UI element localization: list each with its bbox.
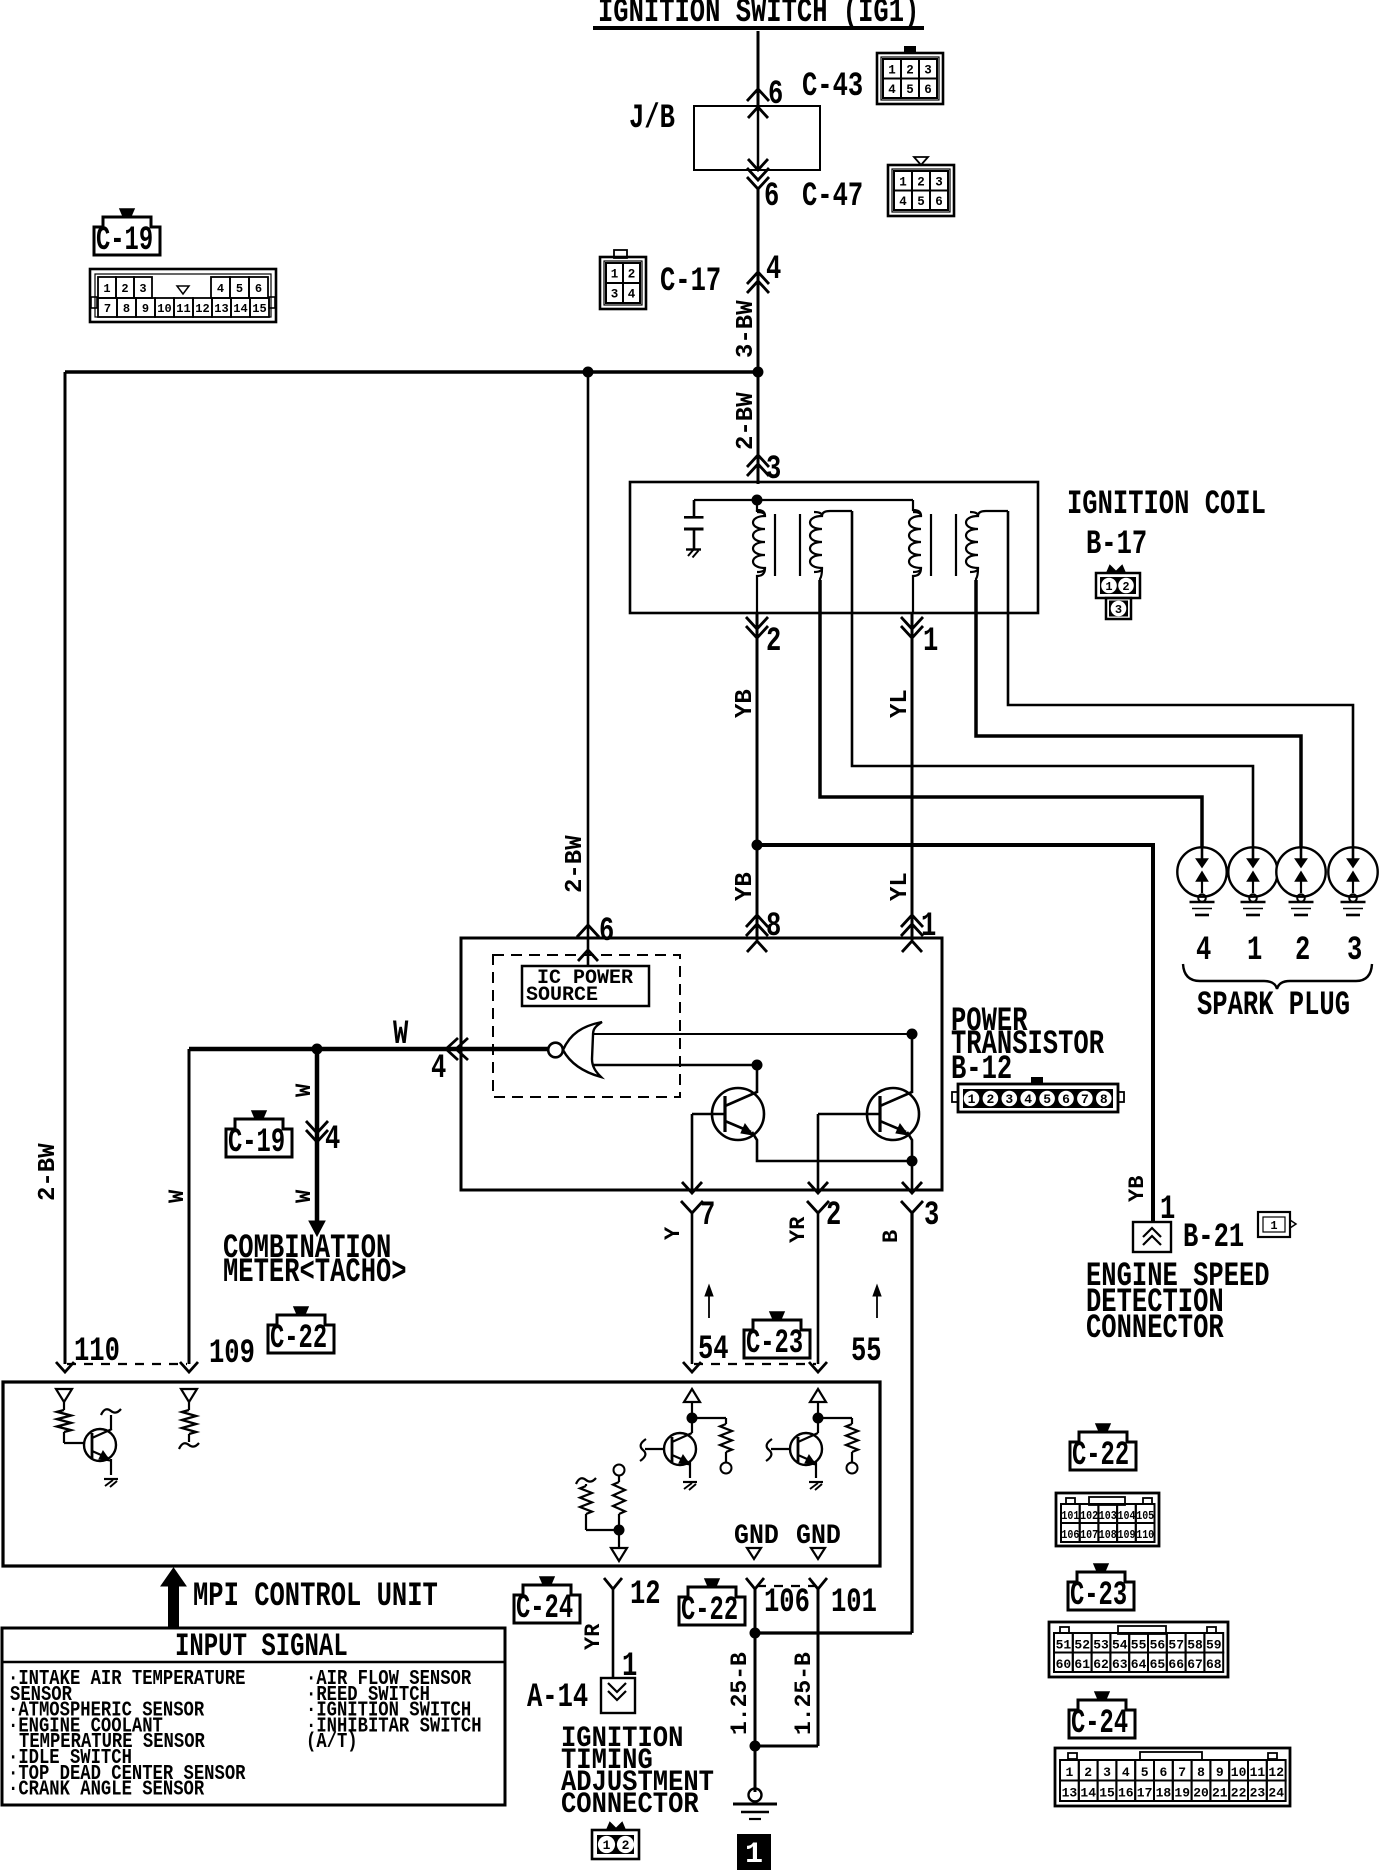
svg-text:10: 10 — [157, 302, 171, 316]
pin 1 chevron (power transistor) — [901, 915, 923, 936]
label B-17 — [1086, 526, 1147, 564]
svg-text:109: 109 — [1118, 1528, 1136, 1542]
svg-text:101: 101 — [831, 1584, 877, 1622]
wire label 2-BW (branch) — [562, 835, 589, 893]
pin 1 entry chevron — [902, 941, 922, 952]
connector A-14 box — [601, 1678, 635, 1713]
wire C-47 to C-17, 3-BW — [757, 189, 760, 372]
connector C-23 label box (54/55) — [744, 1320, 810, 1358]
coil internal bus wire — [694, 495, 913, 506]
svg-text:2: 2 — [826, 1197, 841, 1235]
node 55 driver — [813, 1413, 824, 1434]
svg-text:4: 4 — [628, 288, 636, 302]
wire label 1.25-B (106) — [727, 1652, 753, 1735]
svg-text:51: 51 — [1056, 1638, 1072, 1653]
svg-text:68: 68 — [1206, 1657, 1222, 1672]
pin 4 chevron C-17 — [747, 272, 769, 293]
connector A-14 icon — [592, 1823, 639, 1859]
wire label W (horizontal) — [393, 1016, 409, 1054]
connector C-22 label box (right) — [1070, 1432, 1136, 1470]
T2 core — [931, 514, 956, 576]
node 101 to ground wire — [750, 1741, 819, 1752]
pin label 106 — [764, 1584, 810, 1622]
capacitor C1 (noise condenser) — [684, 500, 704, 549]
connector C-19 label box (top) — [94, 217, 160, 255]
svg-text:2: 2 — [628, 268, 636, 282]
svg-text:1: 1 — [1105, 580, 1112, 594]
label COMBINATION METER(TACHO) — [223, 1230, 407, 1292]
svg-text:IGNITION COIL: IGNITION COIL — [1067, 486, 1266, 524]
resistor R110 — [57, 1410, 71, 1443]
junction block J/B box — [694, 106, 820, 170]
svg-text:3: 3 — [1115, 603, 1122, 617]
svg-text:7: 7 — [1178, 1765, 1186, 1780]
gate input wire from YL — [593, 1029, 918, 1040]
wire label W (tacho lower) — [292, 1189, 317, 1203]
svg-text:1: 1 — [899, 175, 907, 189]
output marker 54 — [684, 1389, 700, 1418]
T2 secondary top lead down — [1007, 511, 1010, 613]
svg-text:19: 19 — [1174, 1786, 1190, 1801]
svg-text:64: 64 — [1131, 1657, 1147, 1672]
resistor R109 — [179, 1410, 199, 1449]
svg-text:1.25-B: 1.25-B — [791, 1652, 817, 1735]
svg-text:3: 3 — [1347, 932, 1362, 970]
svg-text:W: W — [292, 1083, 317, 1097]
wire label W (109) — [165, 1189, 190, 1203]
ground (Q110) — [104, 1479, 118, 1487]
svg-text:58: 58 — [1187, 1638, 1203, 1653]
svg-text:4: 4 — [217, 282, 224, 296]
direction arrow (54) — [705, 1285, 713, 1318]
svg-text:C-22: C-22 — [681, 1591, 738, 1629]
svg-text:MPI CONTROL UNIT: MPI CONTROL UNIT — [193, 1578, 438, 1616]
label ENGINE SPEED DETECTION CONNECTOR — [1086, 1258, 1270, 1348]
wire YB branch to engine speed connector — [757, 845, 1153, 1222]
dashed link 110-109 — [67, 1363, 187, 1365]
pin 6 chevron C-47 — [747, 168, 769, 189]
connector C-23 icon — [1049, 1622, 1228, 1677]
pin label 55 — [851, 1333, 882, 1371]
svg-text:YL: YL — [887, 689, 914, 718]
svg-text:C-23: C-23 — [746, 1324, 803, 1362]
pin label 1 (coil) — [923, 623, 938, 661]
svg-text:2: 2 — [986, 1092, 994, 1107]
label IGNITION TIMING ADJUSTMENT CONNECTOR — [561, 1722, 714, 1821]
wire label YL upper — [887, 689, 914, 718]
pin 106 chevron — [746, 1578, 764, 1589]
svg-text:YR: YR — [786, 1216, 811, 1243]
svg-text:65: 65 — [1150, 1657, 1166, 1672]
T1 secondary winding — [810, 511, 852, 582]
svg-text:22: 22 — [1231, 1786, 1247, 1801]
pin label 2 (coil) — [766, 623, 781, 661]
svg-text:SPARK PLUG: SPARK PLUG — [1197, 987, 1350, 1025]
svg-text:14: 14 — [1080, 1786, 1096, 1801]
wire label YR (pin2) — [786, 1216, 811, 1243]
label B-21 — [1183, 1219, 1244, 1257]
input signal list right — [306, 1667, 482, 1754]
T2 secondary winding — [966, 511, 1008, 582]
pin label 8 — [766, 908, 781, 946]
svg-text:7: 7 — [104, 302, 111, 316]
svg-text:24: 24 — [1268, 1786, 1284, 1801]
svg-text:C-19: C-19 — [228, 1123, 285, 1161]
svg-text:63: 63 — [1112, 1657, 1128, 1672]
svg-text:2: 2 — [917, 175, 925, 189]
wire W to MPI 109 — [188, 1049, 191, 1364]
pin label 3 (power transistor bottom) — [924, 1197, 939, 1235]
svg-text:20: 20 — [1193, 1786, 1209, 1801]
pin 109 chevron — [180, 1362, 198, 1372]
spark plug cylinder numbers 4 1 2 3 — [1196, 932, 1362, 970]
svg-text:4: 4 — [1196, 932, 1211, 970]
wire ignition switch to J/B — [757, 31, 760, 107]
svg-text:YB: YB — [732, 689, 759, 718]
svg-text:YR: YR — [581, 1623, 606, 1650]
node 54 driver — [687, 1413, 698, 1434]
svg-text:60: 60 — [1056, 1657, 1072, 1672]
svg-text:C-23: C-23 — [1070, 1576, 1127, 1614]
svg-text:13: 13 — [214, 302, 228, 316]
wire 2-BW to MPI 110 — [64, 372, 67, 1364]
wire Q2 collector to YL node — [911, 1034, 914, 1093]
pin 2 chevron (coil) — [746, 617, 768, 638]
svg-text:3: 3 — [935, 175, 943, 189]
svg-text:66: 66 — [1168, 1657, 1184, 1672]
driver gate U1 — [548, 1022, 602, 1077]
svg-text:1: 1 — [611, 268, 619, 282]
T1 secondary top lead down — [851, 511, 854, 613]
wire 1.25-B from 106 — [754, 1589, 757, 1792]
svg-text:101: 101 — [1061, 1509, 1079, 1523]
svg-text:62: 62 — [1093, 1657, 1109, 1672]
pin 3 chevron B-17 — [747, 455, 769, 476]
svg-text:6: 6 — [935, 195, 943, 209]
svg-text:55: 55 — [1131, 1638, 1147, 1653]
svg-text:·CRANK ANGLE SENSOR: ·CRANK ANGLE SENSOR — [8, 1777, 205, 1801]
output marker 55 — [810, 1389, 826, 1418]
svg-text:105: 105 — [1136, 1509, 1154, 1523]
label MPI CONTROL UNIT — [193, 1578, 438, 1616]
wire label Y (pin7) — [661, 1226, 686, 1240]
pin 2 chevrons (power transistor bottom) — [807, 1182, 829, 1213]
wire label 3-BW — [733, 300, 760, 358]
label IGNITION COIL — [1067, 486, 1266, 524]
svg-text:102: 102 — [1080, 1509, 1098, 1523]
svg-text:1: 1 — [103, 282, 110, 296]
pin label 1 (A-14) — [622, 1648, 637, 1686]
wire pin2 from Q2 base — [817, 1114, 820, 1190]
ground marker GND1 — [747, 1548, 761, 1559]
wire 2-BW branch down to pin 6 — [587, 372, 590, 966]
wire pin7 from Q1 base — [691, 1114, 694, 1190]
svg-text:2: 2 — [622, 1838, 630, 1853]
power transistor box B-12 — [461, 938, 942, 1190]
svg-text:3: 3 — [766, 451, 781, 489]
connector C-43 icon — [877, 46, 943, 104]
pin label 109 — [209, 1335, 255, 1373]
wire B pin3 down — [910, 1213, 913, 1633]
svg-text:1: 1 — [888, 63, 896, 77]
svg-text:C-17: C-17 — [660, 263, 721, 301]
resistor R54 — [692, 1418, 732, 1474]
dashed link 106-101 — [757, 1585, 816, 1587]
input marker 110 — [56, 1389, 72, 1410]
svg-text:B: B — [879, 1230, 904, 1243]
pin 6 chevron (power transistor) — [577, 925, 599, 961]
connector B-17 icon — [1096, 566, 1140, 619]
svg-text:54: 54 — [1112, 1638, 1128, 1653]
connector C-24 icon — [1055, 1748, 1290, 1806]
labels POWER TRANSISTOR B-12 — [951, 1003, 1104, 1089]
pin label 1 (power transistor) — [921, 908, 936, 946]
pin label 54 — [698, 1331, 729, 1369]
svg-text:11: 11 — [1250, 1765, 1266, 1780]
svg-text:2-BW: 2-BW — [562, 835, 589, 893]
svg-text:1: 1 — [1065, 1765, 1073, 1780]
spark plug wire 3 — [1008, 613, 1353, 852]
wire label B (pin3) — [879, 1230, 904, 1243]
pin label 4 (power transistor) — [431, 1050, 446, 1088]
svg-text:2: 2 — [906, 63, 914, 77]
connector C-24 label box (12) — [514, 1585, 580, 1623]
wire YB coil pin2 down — [756, 613, 759, 940]
wire W down to combination meter — [315, 1049, 320, 1226]
svg-text:1.25-B: 1.25-B — [727, 1652, 753, 1735]
branch node y372 — [65, 367, 764, 378]
svg-text:C-43: C-43 — [802, 68, 863, 106]
svg-text:67: 67 — [1187, 1657, 1203, 1672]
svg-text:8: 8 — [1197, 1765, 1205, 1780]
svg-text:4: 4 — [766, 251, 781, 289]
node timing adjust — [586, 1525, 625, 1536]
wire tacho output W — [189, 1047, 548, 1052]
input signal box — [2, 1628, 505, 1805]
svg-text:2: 2 — [766, 623, 781, 661]
wire label 1.25-B (101) — [791, 1652, 817, 1735]
pin label 1 (B-21) — [1160, 1191, 1175, 1229]
title IGNITION SWITCH (IG1) — [593, 0, 924, 32]
svg-text:J/B: J/B — [629, 100, 675, 138]
input signal arrow — [161, 1568, 186, 1628]
svg-text:SOURCE: SOURCE — [526, 984, 598, 1007]
svg-text:2: 2 — [1295, 932, 1310, 970]
svg-text:5: 5 — [1043, 1092, 1051, 1107]
spark plug at x=1301 — [1276, 847, 1325, 915]
svg-text:6: 6 — [768, 76, 783, 114]
wire 1.25-B from 101 — [817, 1589, 820, 1746]
svg-text:14: 14 — [233, 302, 247, 316]
pin 6 chevron C-43 — [747, 89, 769, 101]
svg-text:109: 109 — [209, 1335, 255, 1373]
svg-text:C-24: C-24 — [1071, 1704, 1128, 1742]
connector C-47 icon — [888, 157, 954, 216]
direction arrow (55) — [873, 1285, 881, 1318]
pin 8 chevron (power transistor) — [746, 915, 768, 936]
svg-text:1: 1 — [923, 623, 938, 661]
svg-text:18: 18 — [1156, 1786, 1172, 1801]
T1 core — [775, 514, 800, 576]
svg-text:YL: YL — [887, 872, 914, 901]
node W to tacho — [312, 1044, 323, 1055]
resistor R55 — [818, 1418, 858, 1474]
node 106/B — [750, 1628, 913, 1639]
resistor R12b — [613, 1465, 625, 1549]
pin 3 chevrons (power transistor bottom) — [901, 1182, 923, 1213]
connector C-22 label box (meter) — [268, 1315, 334, 1353]
wire Q1 collector to YB node — [756, 1065, 759, 1093]
pin label 6 (power transistor) — [599, 913, 614, 951]
svg-text:B-21: B-21 — [1183, 1219, 1244, 1257]
svg-text:56: 56 — [1150, 1638, 1166, 1653]
svg-text:CONNECTOR: CONNECTOR — [561, 1788, 699, 1821]
svg-text:106: 106 — [764, 1584, 810, 1622]
spark plug at x=1253 — [1228, 847, 1277, 915]
svg-text:110: 110 — [74, 1333, 120, 1371]
svg-text:1: 1 — [1160, 1191, 1175, 1229]
pin label 4 (C-17) — [766, 251, 781, 289]
svg-text:3: 3 — [611, 288, 619, 302]
svg-text:3: 3 — [924, 1197, 939, 1235]
connector C-23 label box (right) — [1068, 1572, 1134, 1610]
svg-text:C-19: C-19 — [96, 221, 153, 259]
spark plug wire 2 — [976, 613, 1301, 852]
svg-text:W: W — [393, 1016, 409, 1054]
wire YR pin2 to MPI 55 — [817, 1213, 820, 1364]
pin 7 chevrons (power transistor bottom) — [681, 1182, 703, 1213]
ground marker GND2 — [811, 1548, 825, 1559]
svg-text:15: 15 — [252, 302, 266, 316]
svg-text:C-22: C-22 — [1072, 1436, 1129, 1474]
svg-text:1: 1 — [745, 1838, 763, 1872]
wire label W (tacho upper) — [292, 1083, 317, 1097]
svg-text:108: 108 — [1099, 1528, 1117, 1542]
pin 55 chevron — [809, 1362, 827, 1372]
wire label YR (12) — [581, 1623, 606, 1650]
svg-text:9: 9 — [142, 302, 149, 316]
wire Y pin7 to MPI 54 — [691, 1213, 694, 1364]
wire label 2-BW (110) — [35, 1143, 62, 1201]
svg-text:4: 4 — [1122, 1765, 1130, 1780]
svg-text:5: 5 — [236, 282, 243, 296]
transistor Q1 (power transistor unit) — [692, 1088, 764, 1140]
pin label 101 — [831, 1584, 877, 1622]
svg-text:6: 6 — [255, 282, 262, 296]
pin label 110 — [74, 1333, 120, 1371]
svg-text:7: 7 — [700, 1197, 715, 1235]
svg-text:2-BW: 2-BW — [733, 392, 760, 450]
input signal list left — [8, 1667, 246, 1802]
svg-text:4: 4 — [1024, 1092, 1032, 1107]
pin label 3 (B-17) — [766, 451, 781, 489]
ground (battery minus) — [733, 1789, 777, 1820]
wire label 2-BW — [733, 392, 760, 450]
svg-text:3: 3 — [1103, 1765, 1111, 1780]
svg-text:106: 106 — [1061, 1528, 1079, 1542]
transistor Q2 (power transistor unit) — [818, 1088, 919, 1140]
svg-text:11: 11 — [176, 302, 190, 316]
connector C-19 label box (meter) — [226, 1119, 292, 1157]
wire through J/B — [748, 107, 768, 170]
IC power source dashed enclosure — [493, 955, 680, 1097]
svg-text:59: 59 — [1206, 1638, 1222, 1653]
output marker 12 — [611, 1548, 627, 1561]
spark plug at x=1353 — [1328, 847, 1377, 915]
svg-text:23: 23 — [1250, 1786, 1266, 1801]
svg-text:13: 13 — [1062, 1786, 1078, 1801]
svg-text:3: 3 — [139, 282, 146, 296]
svg-text:7: 7 — [1081, 1092, 1089, 1107]
wire label YB (engine speed) — [1125, 1176, 1150, 1202]
ignition coil transformer T2 primary winding — [909, 500, 921, 613]
wire Q1 emitter to common node — [752, 1132, 912, 1161]
wire label YB lower — [732, 872, 759, 901]
wire pin3 from emitters — [911, 1161, 914, 1190]
dashed link 54-55 — [694, 1363, 816, 1365]
page reference 1 — [737, 1834, 771, 1872]
svg-text:1: 1 — [1247, 932, 1262, 970]
svg-text:4: 4 — [888, 83, 896, 97]
connector B-12 icon — [952, 1077, 1124, 1112]
ground (Q55) — [809, 1482, 823, 1490]
svg-text:GND: GND — [796, 1520, 841, 1552]
ignition coil transformer T1 primary winding — [753, 500, 765, 613]
svg-text:GND: GND — [734, 1520, 779, 1552]
svg-text:57: 57 — [1168, 1638, 1184, 1653]
pin 54 chevron — [683, 1362, 701, 1372]
svg-text:10: 10 — [1231, 1765, 1247, 1780]
svg-text:4: 4 — [431, 1050, 446, 1088]
svg-text:2-BW: 2-BW — [35, 1143, 62, 1201]
wire 2-BW to ignition coil — [757, 372, 760, 484]
pin label 12 — [630, 1576, 661, 1614]
spark plug at x=1202 — [1177, 847, 1226, 915]
svg-text:17: 17 — [1137, 1786, 1153, 1801]
svg-text:(A/T): (A/T) — [306, 1730, 358, 1754]
svg-text:YB: YB — [732, 872, 759, 901]
pin 4 chevron C-19 — [306, 1121, 328, 1142]
svg-text:C-24: C-24 — [516, 1589, 573, 1627]
svg-text:3: 3 — [1005, 1092, 1013, 1107]
svg-text:9: 9 — [1216, 1765, 1224, 1780]
pin 4 chevron (power transistor output) — [446, 1038, 468, 1060]
label C-43 — [802, 68, 863, 106]
pin 8 entry chevron — [747, 941, 767, 952]
svg-text:53: 53 — [1093, 1638, 1109, 1653]
svg-text:12: 12 — [1268, 1765, 1284, 1780]
svg-text:1: 1 — [968, 1092, 976, 1107]
svg-text:1: 1 — [921, 908, 936, 946]
ground (capacitor) — [686, 549, 701, 558]
svg-text:A-14: A-14 — [527, 1679, 588, 1717]
svg-text:21: 21 — [1212, 1786, 1228, 1801]
svg-text:8: 8 — [766, 908, 781, 946]
connector C-19 icon — [90, 269, 276, 322]
connector B-21 box — [1133, 1222, 1171, 1252]
MPI control unit box — [3, 1382, 880, 1566]
wire label YB upper — [732, 689, 759, 718]
svg-text:INPUT SIGNAL: INPUT SIGNAL — [175, 1629, 348, 1665]
svg-text:16: 16 — [1118, 1786, 1134, 1801]
svg-text:103: 103 — [1099, 1509, 1117, 1523]
ignition coil box B-17 — [630, 482, 1038, 613]
svg-text:110: 110 — [1136, 1528, 1154, 1542]
svg-text:6: 6 — [599, 913, 614, 951]
transistor Q55 (MPI) — [766, 1433, 822, 1478]
svg-text:6: 6 — [1062, 1092, 1070, 1107]
svg-text:54: 54 — [698, 1331, 729, 1369]
